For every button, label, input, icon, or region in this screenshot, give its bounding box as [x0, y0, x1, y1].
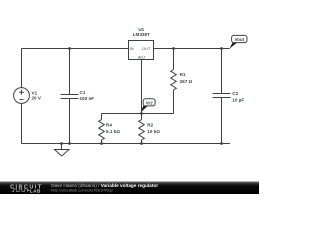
svg-text:V1: V1: [32, 91, 38, 96]
svg-text:Vr2: Vr2: [146, 100, 154, 105]
svg-text:10 µF: 10 µF: [232, 98, 244, 103]
svg-text:10 kΩ: 10 kΩ: [147, 129, 160, 134]
svg-text:R4: R4: [106, 123, 112, 128]
svg-text:LAB: LAB: [30, 188, 41, 193]
svg-text:20 V: 20 V: [32, 96, 42, 101]
svg-text:IN: IN: [130, 47, 134, 51]
svg-text:ADJ: ADJ: [137, 55, 145, 59]
svg-text:5.1 kΩ: 5.1 kΩ: [106, 129, 120, 134]
svg-text:267 Ω: 267 Ω: [180, 79, 193, 84]
svg-text:Vout: Vout: [234, 37, 244, 42]
svg-text:C1: C1: [80, 90, 86, 95]
svg-text:R1: R1: [180, 72, 186, 77]
svg-text:C2: C2: [232, 91, 238, 96]
svg-text:100 nF: 100 nF: [80, 96, 95, 101]
svg-text:R2: R2: [147, 123, 153, 128]
svg-text:OUT: OUT: [142, 47, 151, 51]
svg-text:LM338T: LM338T: [133, 32, 150, 37]
svg-text:http://circuitlab.com/c2u76tc3: http://circuitlab.com/c2u76tc37f6q2: [51, 187, 114, 192]
